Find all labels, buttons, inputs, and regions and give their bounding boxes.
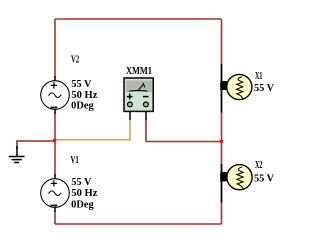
svg-text:0Deg: 0Deg [71,101,94,112]
plus mark [127,94,133,100]
terminal + [127,102,132,107]
wire top rail [55,18,222,20]
node junction at right rail [220,140,223,143]
svg-text:50 Hz: 50 Hz [71,188,98,199]
svg-text:55 V: 55 V [254,173,275,184]
wire ground branch (dark red) [17,141,54,149]
svg-text:V1: V1 [71,155,79,166]
svg-text:55 V: 55 V [71,177,92,188]
node junction at ground branch [53,139,56,142]
multimeter XMM1 [124,78,153,120]
wire bottom rail [55,223,222,225]
wire right rail lower (X2 to bottom rail) [221,202,223,224]
svg-text:0Deg: 0Deg [71,199,94,210]
wire left rail middle (V2 - to V1 +) [54,113,56,175]
wire XMM1 positive terminal to ground node (orange) [56,119,131,140]
ground [9,146,25,163]
meter needle [129,90,147,91]
svg-text:X2: X2 [255,160,263,171]
svg-text:55 V: 55 V [254,83,275,94]
wire XMM1 negative terminal to right rail [146,119,222,142]
svg-text:XMM1: XMM1 [126,66,152,77]
wire left rail upper (top rail to V2 +) [54,19,56,77]
svg-text:X1: X1 [255,71,263,82]
AC source V2 [41,76,70,114]
svg-text:55 V: 55 V [71,79,92,90]
lamp X2 [220,164,252,203]
svg-text:V2: V2 [71,55,79,66]
AC source V1 [41,174,70,212]
wire left rail lower (V1 - to bottom rail) [54,211,56,224]
svg-text:50 Hz: 50 Hz [71,90,98,101]
lamp X1 [220,64,252,113]
minus mark [143,96,149,98]
wire right rail upper (top rail to lamp X1) [221,19,223,65]
filament zigzag [237,167,243,188]
terminal - [144,102,149,107]
wire right rail middle (X1 to X2 through junction) [221,112,223,164]
filament zigzag [237,77,243,98]
